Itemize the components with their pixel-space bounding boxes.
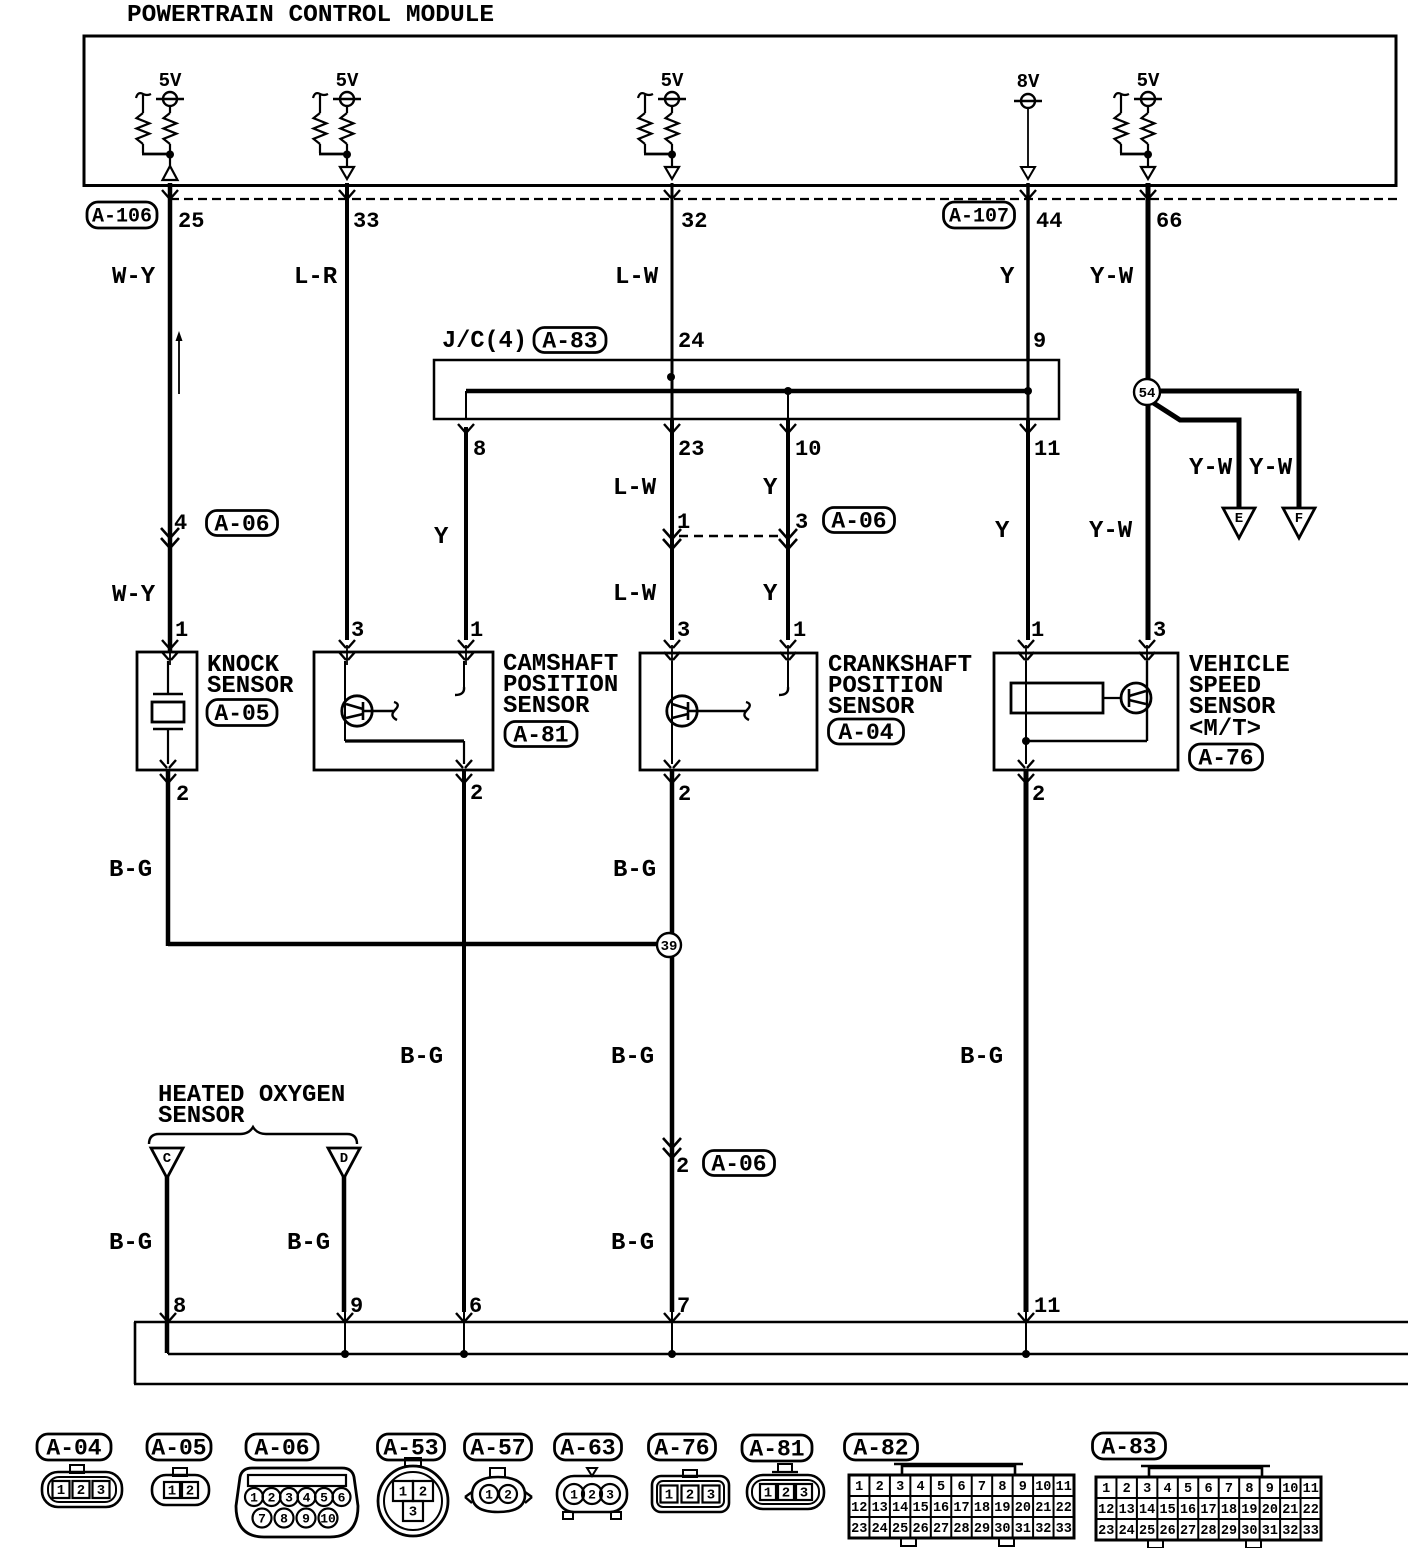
svg-text:3: 3 — [351, 618, 364, 643]
svg-text:Y: Y — [1000, 264, 1015, 291]
svg-text:22: 22 — [1056, 1501, 1072, 1516]
svg-text:3: 3 — [409, 1505, 417, 1521]
svg-text:16: 16 — [933, 1501, 949, 1516]
svg-text:1: 1 — [793, 618, 806, 643]
svg-text:POWERTRAIN CONTROL MODULE: POWERTRAIN CONTROL MODULE — [127, 2, 494, 29]
svg-text:2: 2 — [186, 1484, 194, 1500]
svg-text:18: 18 — [974, 1501, 990, 1516]
svg-text:7: 7 — [978, 1480, 986, 1495]
svg-text:B-G: B-G — [400, 1044, 443, 1071]
svg-text:A-57: A-57 — [470, 1436, 525, 1462]
svg-text:8: 8 — [280, 1511, 288, 1526]
svg-text:3: 3 — [896, 1480, 904, 1495]
svg-text:1: 1 — [168, 1484, 176, 1500]
svg-text:A-83: A-83 — [542, 329, 597, 355]
svg-text:4: 4 — [303, 1490, 311, 1505]
svg-text:8: 8 — [473, 437, 486, 462]
svg-text:9: 9 — [1266, 1482, 1274, 1497]
svg-text:12: 12 — [1098, 1503, 1114, 1518]
svg-text:SENSOR: SENSOR — [207, 673, 294, 700]
svg-text:6: 6 — [957, 1480, 965, 1495]
svg-text:2: 2 — [686, 1488, 694, 1504]
svg-text:Y-W: Y-W — [1189, 455, 1233, 482]
svg-text:30: 30 — [1241, 1524, 1257, 1539]
svg-text:6: 6 — [338, 1490, 346, 1505]
svg-text:8: 8 — [998, 1480, 1006, 1495]
svg-text:54: 54 — [1139, 386, 1156, 402]
svg-text:11: 11 — [1034, 1294, 1060, 1319]
svg-text:10: 10 — [795, 437, 821, 462]
svg-text:26: 26 — [912, 1522, 928, 1537]
svg-text:B-G: B-G — [109, 857, 152, 884]
svg-text:3: 3 — [1143, 1482, 1151, 1497]
svg-text:28: 28 — [1200, 1524, 1216, 1539]
svg-text:5V: 5V — [1137, 70, 1160, 92]
svg-text:8: 8 — [173, 1294, 186, 1319]
svg-text:12: 12 — [851, 1501, 867, 1516]
svg-text:<M/T>: <M/T> — [1189, 716, 1261, 743]
svg-text:5: 5 — [937, 1480, 945, 1495]
svg-text:31: 31 — [1015, 1522, 1031, 1537]
svg-text:2: 2 — [678, 782, 691, 807]
svg-text:4: 4 — [1164, 1482, 1172, 1497]
svg-text:23: 23 — [851, 1522, 867, 1537]
svg-text:13: 13 — [1119, 1503, 1135, 1518]
svg-text:39: 39 — [661, 939, 678, 955]
svg-text:Y: Y — [763, 475, 778, 502]
svg-text:W-Y: W-Y — [112, 264, 156, 291]
svg-text:3: 3 — [677, 618, 690, 643]
svg-text:7: 7 — [258, 1511, 266, 1526]
svg-text:A-106: A-106 — [92, 206, 152, 229]
svg-text:2: 2 — [504, 1487, 512, 1502]
svg-text:2: 2 — [876, 1480, 884, 1495]
svg-text:32: 32 — [1035, 1522, 1051, 1537]
svg-text:B-G: B-G — [611, 1230, 654, 1257]
svg-text:2: 2 — [1123, 1482, 1131, 1497]
svg-text:3: 3 — [800, 1486, 808, 1502]
svg-text:B-G: B-G — [960, 1044, 1003, 1071]
svg-text:Y-W: Y-W — [1090, 264, 1134, 291]
svg-text:33: 33 — [353, 209, 379, 234]
svg-text:33: 33 — [1056, 1522, 1072, 1537]
svg-text:20: 20 — [1262, 1503, 1278, 1518]
svg-text:2: 2 — [676, 1154, 689, 1179]
svg-text:27: 27 — [933, 1522, 949, 1537]
svg-text:30: 30 — [994, 1522, 1010, 1537]
svg-text:2: 2 — [782, 1486, 790, 1502]
svg-text:22: 22 — [1303, 1503, 1319, 1518]
svg-text:7: 7 — [677, 1294, 690, 1319]
svg-text:4: 4 — [917, 1480, 925, 1495]
svg-text:15: 15 — [1159, 1503, 1175, 1518]
svg-text:10: 10 — [1035, 1480, 1051, 1495]
svg-text:B-G: B-G — [613, 857, 656, 884]
svg-text:21: 21 — [1282, 1503, 1298, 1518]
svg-text:23: 23 — [678, 437, 704, 462]
svg-text:28: 28 — [953, 1522, 969, 1537]
svg-text:15: 15 — [912, 1501, 928, 1516]
svg-text:3: 3 — [606, 1487, 614, 1502]
svg-text:1: 1 — [764, 1486, 772, 1502]
svg-text:B-G: B-G — [287, 1230, 330, 1257]
svg-text:2: 2 — [1032, 782, 1045, 807]
svg-text:29: 29 — [1221, 1524, 1237, 1539]
svg-text:J/C(4): J/C(4) — [442, 328, 527, 355]
svg-text:24: 24 — [872, 1522, 888, 1537]
svg-text:1: 1 — [485, 1487, 493, 1502]
svg-text:17: 17 — [953, 1501, 969, 1516]
svg-text:D: D — [340, 1151, 348, 1167]
svg-text:9: 9 — [350, 1294, 363, 1319]
svg-text:5V: 5V — [336, 70, 359, 92]
svg-text:20: 20 — [1015, 1501, 1031, 1516]
svg-text:1: 1 — [175, 618, 188, 643]
svg-text:19: 19 — [994, 1501, 1010, 1516]
svg-text:2: 2 — [77, 1483, 85, 1499]
svg-text:27: 27 — [1180, 1524, 1196, 1539]
svg-text:3: 3 — [97, 1483, 105, 1499]
svg-text:1: 1 — [1102, 1482, 1110, 1497]
svg-text:Y-W: Y-W — [1249, 455, 1293, 482]
svg-text:A-107: A-107 — [949, 206, 1009, 229]
svg-text:A-81: A-81 — [749, 1437, 804, 1463]
svg-text:19: 19 — [1241, 1503, 1257, 1518]
svg-text:L-W: L-W — [613, 475, 657, 502]
svg-text:SENSOR: SENSOR — [828, 694, 915, 721]
svg-text:2: 2 — [268, 1490, 276, 1505]
svg-text:A-76: A-76 — [1198, 746, 1253, 772]
svg-text:A-06: A-06 — [831, 509, 886, 535]
svg-text:A-63: A-63 — [560, 1436, 615, 1462]
svg-text:5: 5 — [320, 1490, 328, 1505]
svg-text:66: 66 — [1156, 209, 1182, 234]
svg-text:E: E — [1235, 511, 1243, 527]
svg-text:31: 31 — [1262, 1524, 1278, 1539]
svg-text:32: 32 — [681, 209, 707, 234]
svg-text:2: 2 — [470, 781, 483, 806]
svg-text:A-05: A-05 — [151, 1436, 206, 1462]
svg-text:8: 8 — [1245, 1482, 1253, 1497]
svg-text:1: 1 — [855, 1480, 863, 1495]
svg-text:1: 1 — [570, 1487, 578, 1502]
svg-text:21: 21 — [1035, 1501, 1051, 1516]
svg-text:L-R: L-R — [294, 264, 338, 291]
svg-text:L-W: L-W — [613, 581, 657, 608]
svg-text:16: 16 — [1180, 1503, 1196, 1518]
svg-text:26: 26 — [1159, 1524, 1175, 1539]
svg-text:29: 29 — [974, 1522, 990, 1537]
svg-text:A-06: A-06 — [711, 1152, 766, 1178]
svg-text:A-04: A-04 — [46, 1436, 101, 1462]
svg-text:L-W: L-W — [615, 264, 659, 291]
svg-text:A-81: A-81 — [513, 723, 568, 749]
svg-text:23: 23 — [1098, 1524, 1114, 1539]
svg-text:5V: 5V — [159, 70, 182, 92]
svg-text:B-G: B-G — [109, 1230, 152, 1257]
svg-text:25: 25 — [1139, 1524, 1155, 1539]
svg-text:7: 7 — [1225, 1482, 1233, 1497]
svg-text:18: 18 — [1221, 1503, 1237, 1518]
svg-text:Y: Y — [434, 524, 449, 551]
svg-text:13: 13 — [872, 1501, 888, 1516]
svg-text:44: 44 — [1036, 209, 1062, 234]
svg-text:5: 5 — [1184, 1482, 1192, 1497]
svg-text:Y-W: Y-W — [1089, 518, 1133, 545]
svg-text:2: 2 — [588, 1487, 596, 1502]
svg-text:A-83: A-83 — [1101, 1435, 1156, 1461]
svg-text:A-82: A-82 — [853, 1436, 908, 1462]
svg-text:9: 9 — [1033, 329, 1046, 354]
svg-text:10: 10 — [320, 1511, 336, 1526]
svg-text:11: 11 — [1303, 1482, 1319, 1497]
svg-text:3: 3 — [707, 1488, 715, 1504]
svg-text:11: 11 — [1034, 437, 1060, 462]
svg-text:24: 24 — [1119, 1524, 1135, 1539]
svg-text:Y: Y — [763, 581, 778, 608]
svg-text:33: 33 — [1303, 1524, 1319, 1539]
svg-text:10: 10 — [1282, 1482, 1298, 1497]
svg-text:25: 25 — [892, 1522, 908, 1537]
svg-text:1: 1 — [57, 1483, 65, 1499]
svg-text:1: 1 — [250, 1490, 258, 1505]
svg-text:W-Y: W-Y — [112, 582, 156, 609]
svg-text:1: 1 — [470, 618, 483, 643]
svg-text:3: 3 — [1153, 618, 1166, 643]
svg-text:A-06: A-06 — [214, 512, 269, 538]
svg-text:5V: 5V — [661, 70, 684, 92]
svg-text:2: 2 — [419, 1485, 427, 1501]
svg-text:14: 14 — [892, 1501, 908, 1516]
svg-text:14: 14 — [1139, 1503, 1155, 1518]
svg-text:17: 17 — [1200, 1503, 1216, 1518]
svg-text:2: 2 — [176, 782, 189, 807]
svg-text:SENSOR: SENSOR — [158, 1103, 245, 1130]
svg-text:6: 6 — [1204, 1482, 1212, 1497]
svg-text:3: 3 — [795, 510, 808, 535]
svg-text:A-76: A-76 — [654, 1436, 709, 1462]
svg-text:B-G: B-G — [611, 1044, 654, 1071]
svg-text:A-05: A-05 — [214, 701, 269, 727]
svg-text:SENSOR: SENSOR — [503, 693, 590, 720]
svg-text:A-06: A-06 — [254, 1436, 309, 1462]
svg-text:1: 1 — [399, 1485, 407, 1501]
svg-text:C: C — [163, 1151, 172, 1167]
svg-text:F: F — [1295, 511, 1303, 527]
svg-text:1: 1 — [665, 1488, 673, 1504]
svg-text:3: 3 — [285, 1490, 293, 1505]
svg-text:6: 6 — [469, 1294, 482, 1319]
svg-text:24: 24 — [678, 329, 704, 354]
svg-text:32: 32 — [1282, 1524, 1298, 1539]
svg-text:A-04: A-04 — [838, 720, 893, 746]
svg-text:Y: Y — [995, 518, 1010, 545]
svg-text:11: 11 — [1056, 1480, 1072, 1495]
svg-text:1: 1 — [1031, 618, 1044, 643]
svg-text:9: 9 — [1019, 1480, 1027, 1495]
svg-text:25: 25 — [178, 209, 204, 234]
svg-text:8V: 8V — [1017, 71, 1040, 93]
svg-text:9: 9 — [302, 1511, 310, 1526]
